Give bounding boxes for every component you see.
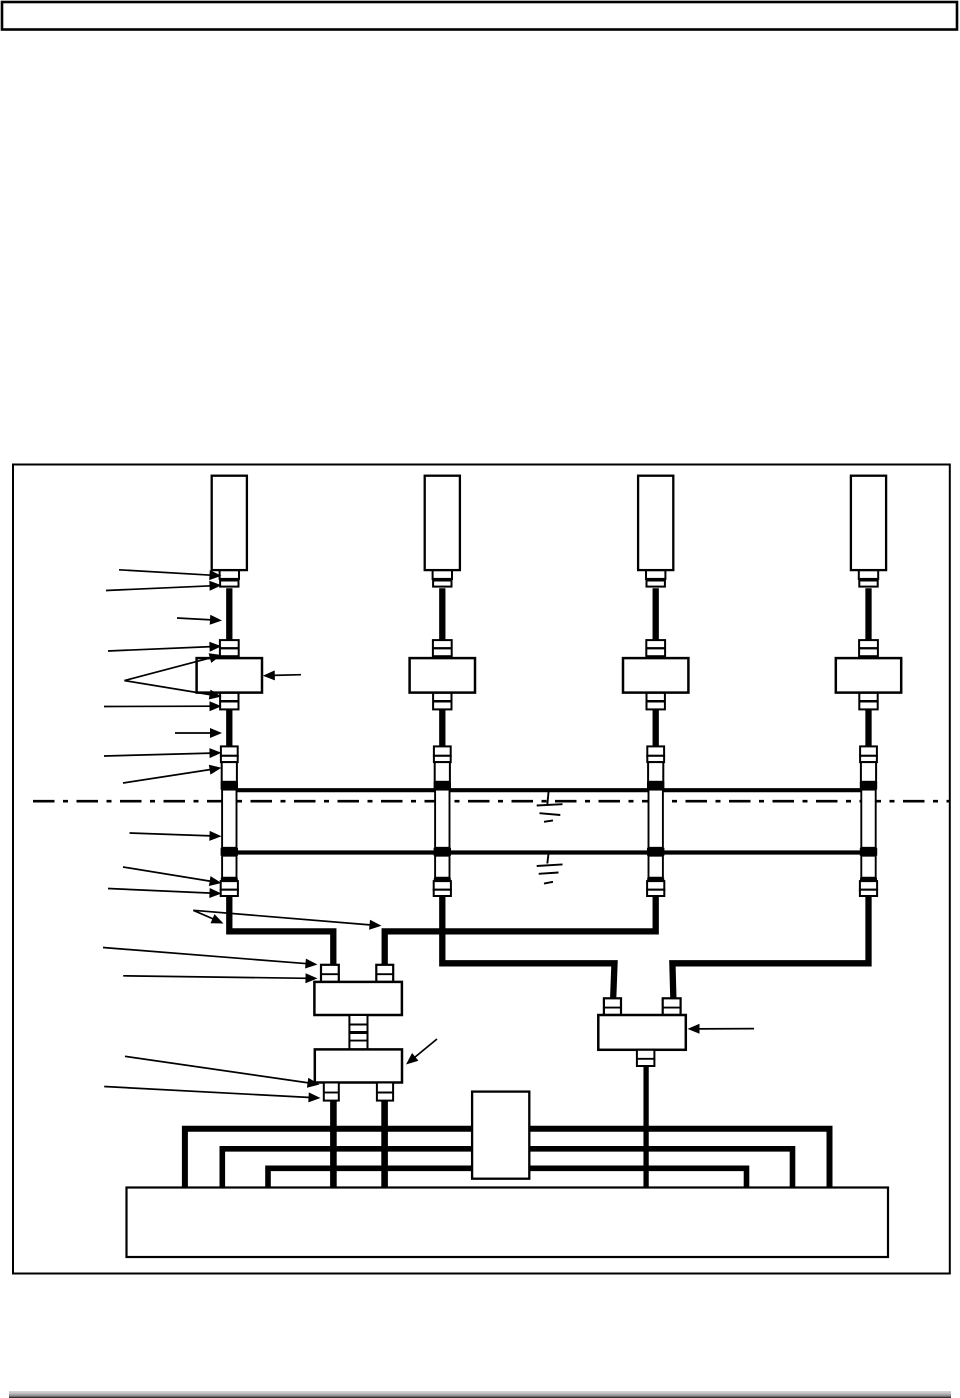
CU-1 lower box (filter) [315,1049,402,1082]
CU-1 right output coax to receiver group [381,1101,388,1188]
coax run: antenna 1 to multicoupler CU-1 left port [229,896,333,970]
CU-2 combiner box [598,1015,686,1050]
feeder cable segment (coupler to deck) 4 [865,709,871,751]
antenna base connector 1 [220,570,239,586]
deck feedthrough bottom connector 3 [647,881,664,896]
deck feedthrough bottom connector 4 [860,881,877,896]
callout: deck feed cable [175,728,222,738]
lower collar ring 4 [860,878,877,881]
coax run: antenna 2 to multicoupler CU-2 left port [442,896,614,1003]
lower deck seal (black collar) 2 [434,848,451,856]
callout: coupler output connector [104,701,222,711]
antenna coupler box 4 [836,658,901,693]
deck line 2 (lower deck plate) [229,850,869,854]
CU-1 right output connector [377,1083,393,1101]
trunk sleeve between decks 1 [222,790,236,848]
feedthrough lower sleeve 1 [222,856,236,878]
trunk sleeve between decks 4 [861,790,875,848]
callout: antenna feed cable [177,615,222,625]
deck feedthrough top connector 4 [860,746,877,762]
CU-2 output connector [637,1050,655,1066]
antenna base connector 4 [859,570,878,586]
callout: CU-1 output connector [125,1056,320,1087]
figure outer border [13,465,950,1274]
callout: antenna coupler (points left) [263,670,301,680]
antenna base connector 3 [646,570,665,586]
coupler input connector 2 [433,640,452,656]
feeder cable segment (antenna to coupler) 4 [865,588,871,642]
trunk sleeve between decks 3 [649,790,663,848]
callout: trunk sleeve [130,831,222,841]
upper deck seal (black collar) 1 [221,782,238,790]
antenna whip 3 [638,476,673,570]
ground symbol at upper deck [537,791,563,822]
lower deck seal (black collar) 1 [221,848,238,856]
receiver bus cable 1 (outermost loop) [185,1129,830,1188]
distribution junction box [472,1092,529,1179]
callout: lower connector body [108,888,222,898]
callout: CU-1 input connector [103,948,318,969]
callout: CU-1 output connector body [104,1087,320,1103]
coax run: antenna 4 to multicoupler CU-2 right port [672,896,868,1003]
callout: CU-1 input connector body [123,973,317,983]
antenna whip 2 [425,476,460,570]
CU-1 left input connector [321,965,339,982]
callout fork: coax bend antenna 1 [193,910,223,923]
CU-1 right input connector [376,965,393,982]
upper deck seal (black collar) 3 [647,782,664,790]
callout: feedthrough sleeve [123,765,222,783]
antenna base connector 2 [433,570,452,586]
coax run: antenna 3 to multicoupler CU-1 right port [385,896,656,970]
CU-2 right input connector [663,998,681,1015]
coupler output connector 2 [433,693,451,710]
feedthrough lower sleeve 4 [861,856,875,878]
antenna whip 4 [851,476,886,570]
feedthrough lower sleeve 2 [435,856,449,878]
callout: coupler input connector [108,642,222,652]
antenna coupler box 2 [410,658,475,693]
trunk sleeve between decks 2 [435,790,449,848]
callout: CU-1 filter box [406,1039,437,1065]
deck line 1 (upper deck plate) [229,788,869,792]
lower deck seal (black collar) 4 [860,848,877,856]
coupler output connector 1 [220,693,238,710]
feedthrough upper sleeve 1 [222,762,237,782]
coupler input connector 1 [220,640,239,656]
CU-1 left output connector [324,1083,339,1101]
deck feedthrough bottom connector 2 [434,881,451,896]
lower collar ring 2 [434,878,451,881]
feeder cable segment (antenna to coupler) 2 [439,588,445,642]
coupler output connector 3 [647,693,665,710]
antenna whip 1 [212,476,247,570]
feedthrough upper sleeve 2 [435,762,450,782]
CU-1 upper box (combiner) [314,982,402,1015]
receiver equipment cabinet [127,1188,889,1258]
feeder cable segment (antenna to coupler) 3 [653,588,659,642]
CU-2 left input connector [604,998,621,1015]
callout: CU-2 multicoupler [688,1024,755,1034]
coupler output connector 4 [859,693,877,710]
upper deck seal (black collar) 2 [434,782,451,790]
CU-2 output coax to receiver group [643,1067,648,1189]
receiver bus cable 2 (middle loop) [222,1149,792,1188]
deck feedthrough top connector 2 [434,746,451,762]
lower collar ring 1 [221,878,238,881]
ground symbol at lower deck [537,853,563,884]
coupler input connector 3 [646,640,665,656]
receiver bus cable 3 (inner loop) [268,1168,747,1188]
feedthrough upper sleeve 4 [861,762,876,782]
coupler input connector 4 [859,640,878,656]
callout: lower feedthrough connector [123,867,222,886]
callout fork: coupler lower connector [124,681,221,700]
feeder cable segment (coupler to deck) 2 [439,709,445,751]
antenna coupler box 3 [623,658,688,693]
feeder cable segment (antenna to coupler) 1 [226,588,232,642]
page footer divider bar [9,1391,951,1398]
lower deck seal (black collar) 3 [647,848,664,856]
antenna coupler box 1 [197,658,262,693]
callout: antenna base fitting [119,570,222,580]
waterline / centerline (dash-dot) [33,800,950,803]
callout: feedthrough connector [104,748,222,758]
CU-1 left output coax to receiver group [330,1101,337,1188]
callout fork: coupler upper connector [124,653,221,680]
lower collar ring 3 [647,878,664,881]
deck feedthrough bottom connector 1 [221,881,238,896]
feeder cable segment (coupler to deck) 1 [226,709,232,751]
feedthrough lower sleeve 3 [649,856,663,878]
feeder cable segment (coupler to deck) 3 [653,709,659,751]
callout: base connector [106,581,222,591]
deck feedthrough top connector 3 [647,746,664,762]
CU-1 interconnect barrel [349,1015,367,1049]
page header box (empty title bar) [2,2,957,30]
deck feedthrough top connector 1 [221,746,238,762]
upper deck seal (black collar) 4 [860,782,877,790]
callout fork: coax bend antenna 3 [193,910,381,930]
feedthrough upper sleeve 3 [648,762,663,782]
